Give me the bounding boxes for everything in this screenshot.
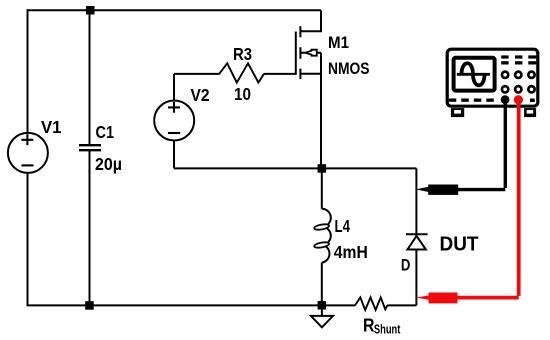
oscilloscope (447, 49, 538, 117)
wire: left vertical through V1 (27, 9, 29, 305)
wire: C1 branch vertical top (89, 10, 91, 145)
resistor Rshunt label (363, 315, 401, 337)
svg-text:V2: V2 (191, 85, 210, 105)
svg-text:Shunt: Shunt (374, 322, 401, 336)
wire: top rail from V1 to M1 drain (28, 9, 322, 11)
svg-text:DUT: DUT (440, 233, 479, 256)
wire: L4 branch vertical (321, 168, 323, 305)
svg-text:L4: L4 (335, 216, 351, 236)
wire: middle rail from V2 bottom to right branch (174, 74, 416, 168)
junction: top rail / C1 (86, 6, 95, 15)
capacitor C1 (79, 145, 101, 150)
diode D (DUT) (406, 234, 428, 249)
wire: gate wire from V2 top through R3 (174, 73, 296, 75)
svg-text:NMOS: NMOS (328, 59, 370, 78)
wire: right branch vertical with diode (415, 168, 417, 305)
svg-text:C1: C1 (96, 122, 115, 142)
wire: M1 source/body connection down to junction (300, 53, 321, 169)
wire: M1 drain connection (300, 10, 321, 31)
svg-text:R: R (363, 315, 375, 336)
junction: middle rail node (318, 164, 327, 173)
red probe wire and clip (416, 95, 523, 303)
junction: bottom rail / L4 / ground (318, 301, 327, 310)
inductor L4 (314, 209, 331, 263)
resistor Rshunt (355, 297, 387, 310)
svg-text:R3: R3 (233, 44, 252, 64)
svg-text:D: D (401, 257, 411, 275)
junction: bottom rail / C1 (85, 301, 94, 310)
svg-text:4mH: 4mH (334, 242, 368, 262)
voltage source V2 (154, 101, 194, 141)
svg-text:10: 10 (234, 84, 251, 104)
svg-text:20µ: 20µ (95, 154, 122, 174)
svg-text:M1: M1 (328, 33, 349, 52)
ground (311, 309, 333, 327)
wire: bottom rail (27, 304, 417, 306)
resistor R3 (219, 63, 264, 82)
transistor M1 NMOS (296, 26, 321, 79)
wire: C1 branch vertical bottom (89, 150, 91, 305)
black probe wire and clip (416, 95, 510, 195)
svg-text:V1: V1 (41, 117, 62, 137)
voltage source V1 (8, 133, 48, 173)
